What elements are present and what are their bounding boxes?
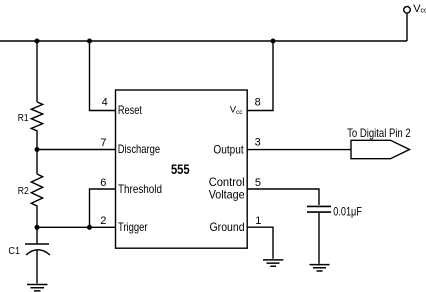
svg-text:Threshold: Threshold [118, 182, 162, 196]
svg-text:Output: Output [213, 142, 244, 156]
svg-text:2: 2 [100, 215, 106, 227]
svg-text:5: 5 [255, 177, 261, 189]
svg-text:Vcc: Vcc [413, 3, 426, 15]
svg-text:7: 7 [100, 137, 106, 149]
svg-text:Vcc: Vcc [230, 105, 244, 116]
svg-text:Voltage: Voltage [209, 188, 245, 202]
svg-text:Trigger: Trigger [118, 220, 148, 234]
svg-text:Reset: Reset [118, 103, 143, 117]
svg-text:To Digital Pin 2: To Digital Pin 2 [347, 126, 411, 140]
svg-text:R2: R2 [18, 185, 29, 197]
svg-text:4: 4 [102, 97, 108, 109]
svg-text:C1: C1 [8, 245, 20, 257]
svg-text:1: 1 [255, 215, 261, 227]
svg-text:8: 8 [255, 97, 261, 109]
svg-text:3: 3 [255, 137, 261, 149]
svg-text:R1: R1 [18, 112, 29, 124]
svg-text:Discharge: Discharge [118, 142, 161, 156]
svg-text:Ground: Ground [210, 220, 245, 234]
svg-text:0.01μF: 0.01μF [333, 207, 362, 219]
svg-text:6: 6 [100, 177, 106, 189]
svg-text:555: 555 [171, 161, 190, 177]
